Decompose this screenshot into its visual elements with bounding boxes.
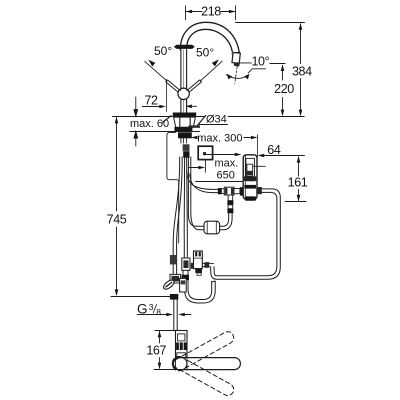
- counter slash left: [163, 116, 172, 123]
- control box inner line: [244, 155, 246, 199]
- dim 218 arrows: [186, 10, 236, 14]
- valve small stem: [183, 270, 188, 275]
- ext line box right: [257, 135, 259, 157]
- angle valve lower nut: [170, 294, 178, 300]
- dim 161 arrows: [297, 156, 301, 202]
- spout arc outer: [180, 22, 239, 52]
- damper inner lines: [207, 221, 216, 233]
- svg-text:50°: 50°: [154, 44, 172, 58]
- svg-text:218: 218: [201, 4, 221, 18]
- base flange: [173, 113, 196, 118]
- plan swivel ring: [174, 357, 187, 370]
- 10 deg leader right / 220 top ref: [270, 63, 285, 65]
- hose supply outer: [173, 157, 180, 279]
- swing arc arrow left: [227, 74, 232, 80]
- svg-text:64: 64: [267, 143, 281, 157]
- plan spout solid: [172, 358, 240, 370]
- control box door: [246, 158, 255, 180]
- max650 arrow: [189, 167, 200, 169]
- shank tube: [180, 117, 190, 131]
- lever left ray: [145, 61, 167, 81]
- fitting row connector C: [234, 189, 240, 194]
- shank nut below counter: [178, 132, 192, 138]
- damper cylinder: [204, 221, 220, 234]
- mixer mid line: [194, 257, 203, 259]
- plan spout dashed upper: [171, 330, 236, 373]
- dim 220 line: [282, 66, 284, 115]
- 10 deg leader left: [240, 62, 252, 64]
- svg-text:max. 300: max. 300: [197, 133, 242, 145]
- counter top line left: [112, 116, 172, 118]
- fitting row connector A: [218, 188, 222, 194]
- svg-text:384: 384: [292, 64, 312, 78]
- handle top bar: [174, 45, 195, 49]
- dim 72 line left: [142, 106, 161, 108]
- shank connector 1: [183, 144, 190, 151]
- control box outline: [243, 155, 257, 200]
- hose box to right elbow: [211, 189, 281, 279]
- U loop hose: [185, 280, 216, 303]
- counter slash right: [197, 115, 206, 125]
- plan body band: [176, 342, 186, 350]
- socket leader arrow: [235, 153, 242, 157]
- box right connector nub: [257, 187, 262, 194]
- spray head: [232, 52, 240, 63]
- sensor cable bracket path: [167, 133, 179, 243]
- dim 167 arrows: [158, 331, 162, 370]
- svg-text:10°: 10°: [252, 54, 270, 68]
- socket square: [198, 146, 212, 159]
- plan body: [176, 331, 188, 368]
- valve small dark: [183, 260, 188, 268]
- fitting row tee block B: [224, 187, 234, 195]
- valve small body: [182, 258, 190, 270]
- svg-text:745: 745: [107, 212, 127, 226]
- dim max60 arrow top: [134, 97, 138, 116]
- mixer top slots: [195, 252, 197, 257]
- dim 745 line: [116, 118, 118, 295]
- control box dark square: [247, 171, 252, 175]
- plan body top square: [178, 334, 185, 341]
- hose spray right: [191, 157, 204, 230]
- spray head collar: [234, 63, 240, 66]
- dim 218 ext ticks: [186, 6, 236, 20]
- dim 72 ext line: [166, 80, 168, 112]
- dim 218 line: [186, 11, 236, 13]
- hose supply inner: [177, 157, 183, 279]
- counter top line right: [197, 116, 305, 118]
- hose spray left: [188, 157, 204, 226]
- socket leader line: [205, 154, 237, 156]
- faucet body tube: [181, 49, 187, 113]
- lever right ray: [200, 61, 222, 81]
- dim 161 line: [298, 157, 300, 201]
- dim max300 arrow left: [191, 136, 198, 140]
- plan ref line top: [155, 330, 183, 332]
- dim 167 line: [159, 332, 161, 369]
- plan spout dashed lower: [171, 354, 236, 397]
- spray head centerline: [235, 63, 238, 84]
- U loop open end: [212, 280, 216, 283]
- dim 64 line: [262, 155, 305, 157]
- mixer body: [194, 251, 203, 269]
- base dark dash right: [189, 125, 201, 127]
- hose valve inner: [186, 157, 189, 258]
- svg-text:8: 8: [156, 307, 161, 317]
- lever left tube: [166, 80, 180, 92]
- dim 64 arrow: [258, 154, 265, 158]
- svg-text:max. 60: max. 60: [130, 118, 169, 130]
- tee stem down: [228, 195, 233, 200]
- dim 220 arrows: [281, 64, 285, 116]
- fitting row block D dark: [240, 187, 244, 195]
- svg-text:220: 220: [274, 82, 294, 96]
- swing arc arrow right: [244, 74, 249, 80]
- plan body band2: [177, 353, 186, 358]
- shank connector 2: [183, 151, 189, 158]
- 10 deg underline: [248, 69, 265, 73]
- dim 72 arrow left: [159, 105, 166, 109]
- svg-text:72: 72: [144, 93, 158, 107]
- ball joint: [178, 88, 189, 99]
- mixer bottom nut: [195, 269, 202, 273]
- G38 underline and arrows: [137, 314, 168, 316]
- ref line 161 bottom: [285, 201, 306, 203]
- control box foot: [245, 196, 256, 200]
- body center shading: [183, 50, 185, 112]
- hose bundle to fitting row diagonal: [187, 172, 218, 193]
- angle valve knob: [162, 278, 176, 291]
- svg-text:161: 161: [288, 176, 308, 190]
- escutcheon: [174, 117, 196, 127]
- spout arc inner: [187, 29, 233, 51]
- control box band: [244, 185, 256, 189]
- dim 72 arrow right: [185, 105, 192, 109]
- lever left arrow: [148, 60, 155, 67]
- supply pipe G38: [174, 300, 177, 331]
- 10 deg swing arc: [226, 75, 249, 79]
- supply fitting small: [170, 255, 177, 264]
- dim 384 arrows: [299, 23, 303, 116]
- plan body left edge over spout: [176, 358, 188, 370]
- socket stem down: [204, 160, 206, 173]
- dia34 underline: [199, 124, 228, 126]
- counter bottom line: [130, 131, 200, 133]
- svg-text:max.: max.: [215, 158, 239, 170]
- hose valve outer: [183, 157, 185, 258]
- svg-text:3: 3: [149, 302, 154, 312]
- svg-text:167: 167: [146, 343, 166, 357]
- ref line spout top: [236, 22, 305, 24]
- plan ref line bottom: [154, 369, 180, 371]
- svg-text:650: 650: [217, 169, 235, 181]
- socket pin: [203, 152, 206, 155]
- spray head joint line: [232, 52, 239, 54]
- dim 72 line right: [191, 105, 197, 107]
- svg-text:50°: 50°: [196, 46, 214, 60]
- ref line 745 bottom: [111, 296, 172, 298]
- shank hose lines: [181, 138, 187, 143]
- cartridge leader: [253, 165, 266, 167]
- mixer left link: [185, 263, 194, 269]
- lever right arrow: [212, 59, 219, 66]
- mixer outlet fitting: [202, 263, 213, 266]
- angle valve tee: [170, 274, 181, 283]
- dim 384 line: [300, 24, 302, 115]
- dim max300 arrow right: [251, 136, 258, 140]
- svg-text:Ø34: Ø34: [206, 113, 227, 125]
- control box cartridge: [247, 164, 253, 176]
- hose spray to elbow: [220, 213, 233, 230]
- dim max60 arrow bottom: [134, 132, 138, 147]
- dim 745 arrows: [115, 117, 119, 296]
- valve nut dark: [182, 275, 189, 280]
- angle valve body right: [180, 278, 187, 292]
- max650 underline: [196, 181, 243, 183]
- dim max300 line right: [244, 137, 253, 139]
- escutcheon base band: [174, 127, 192, 131]
- lever right tube: [187, 80, 201, 92]
